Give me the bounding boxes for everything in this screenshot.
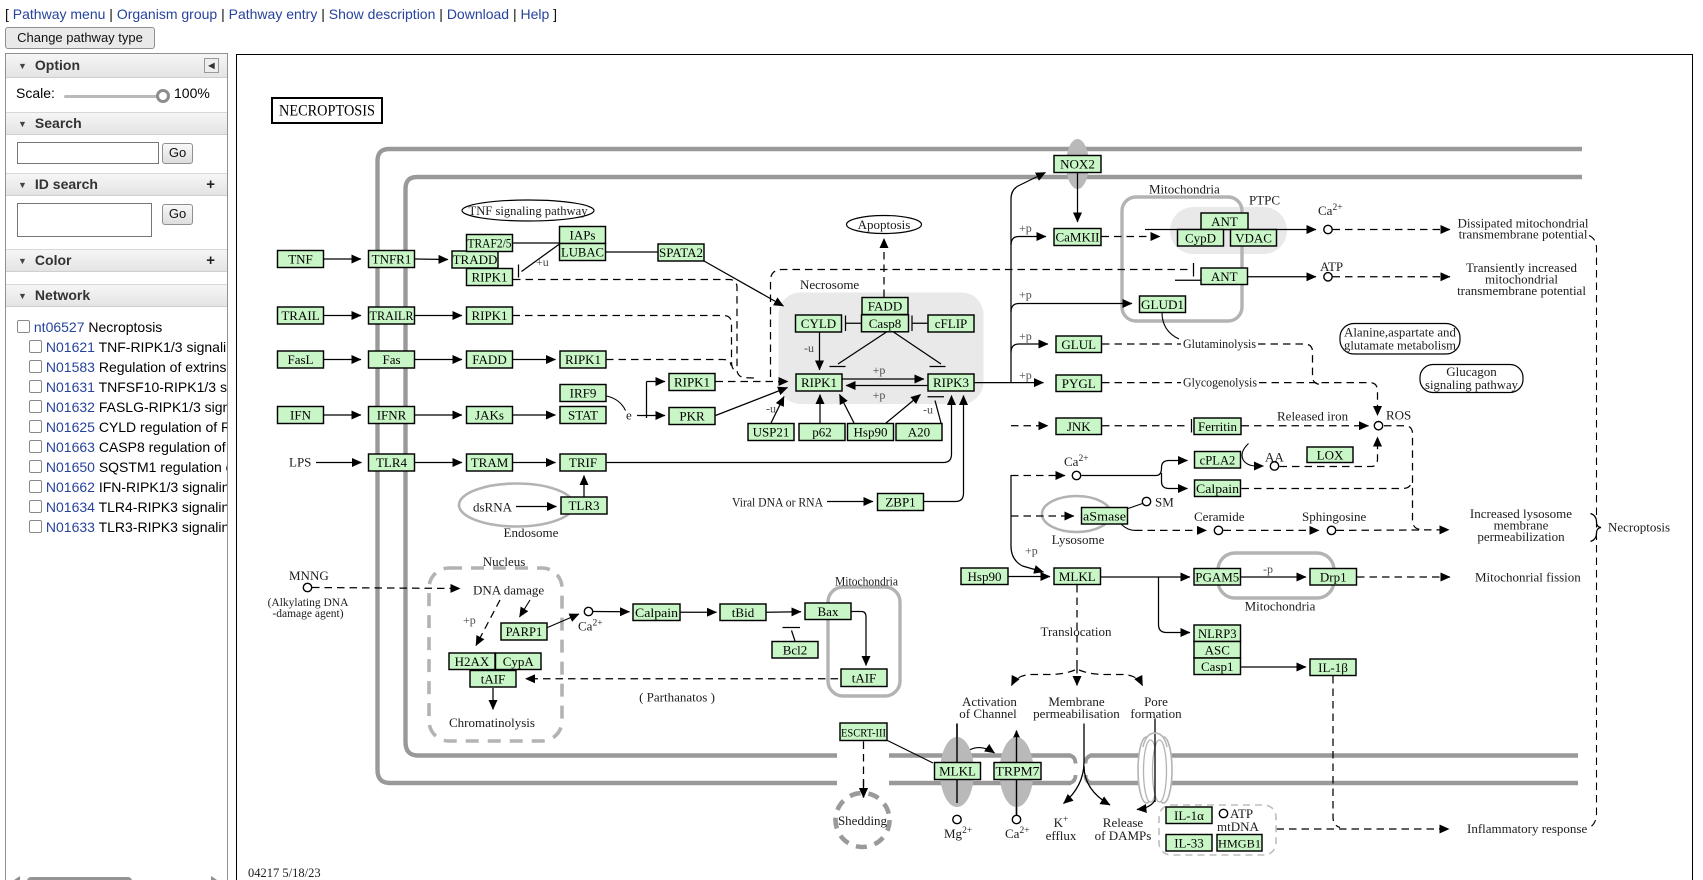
wire Bcl2 inhibit Bax — [783, 628, 801, 642]
wire MLKL to PGAM5 — [1101, 576, 1191, 578]
gene box TNF — [278, 251, 324, 268]
dashed to ceramide circle — [1135, 529, 1207, 531]
svg-text:Necrosome: Necrosome — [800, 277, 859, 292]
svg-text:transmembrane potential: transmembrane potential — [1459, 227, 1588, 242]
dashed ESCRT-III to shedding — [863, 742, 865, 798]
NOX2 membrane ellipse — [1066, 139, 1089, 189]
gene box PGAM5 — [1194, 569, 1241, 586]
svg-text:Bcl2: Bcl2 — [783, 642, 808, 657]
svg-text:Mitochondria: Mitochondria — [1149, 182, 1220, 197]
node Ca2+ nucleus — [584, 607, 592, 615]
membrane opening hooks — [1070, 756, 1091, 784]
wire TRAILR to RIPK1 — [415, 315, 462, 317]
svg-text:H2AX: H2AX — [455, 654, 490, 669]
membrane pore — [1138, 733, 1172, 803]
gene box NOX2 — [1054, 156, 1101, 173]
svg-text:tAIF: tAIF — [852, 670, 877, 685]
svg-text:Endosome: Endosome — [504, 525, 559, 540]
gene box RIPK1 c — [560, 351, 606, 368]
dashed trunk to JNK — [1011, 425, 1048, 427]
gene box GLUL — [1056, 336, 1102, 353]
svg-text:NOX2: NOX2 — [1060, 157, 1095, 172]
node ROS — [1374, 422, 1382, 430]
wire Viral DNA to ZBP1 — [827, 501, 873, 503]
svg-text:Casp8: Casp8 — [869, 316, 902, 331]
svg-text:mtDNA: mtDNA — [1217, 819, 1260, 834]
svg-text:Ca2+: Ca2+ — [578, 619, 603, 634]
svg-text:ROS: ROS — [1386, 408, 1411, 423]
svg-text:IFN: IFN — [290, 408, 312, 423]
gene box TRPM7 — [994, 763, 1041, 780]
DAMPs dashed box — [1159, 805, 1276, 855]
gene box H2AX — [449, 653, 495, 670]
shedding dashed circle — [836, 793, 890, 847]
wire pore formation stem — [1154, 719, 1156, 735]
dashed GLUL to glutaminolysis — [1102, 343, 1181, 345]
wire Casp1 to IL-1b — [1241, 666, 1306, 668]
svg-text:IL-33: IL-33 — [1174, 835, 1204, 850]
wire membrane permeabilisation K+ / DAMPs — [1064, 724, 1085, 804]
svg-text:TNF signaling pathway: TNF signaling pathway — [469, 203, 588, 218]
change pathway type button — [5, 27, 155, 49]
gene box aSmase — [1082, 508, 1128, 525]
svg-text:IL-1α: IL-1α — [1174, 808, 1204, 823]
wire Hsp90 to MLKL — [1009, 576, 1051, 578]
gene box CaMKII — [1054, 229, 1101, 246]
gene box USP21 — [748, 424, 794, 441]
node SM — [1142, 497, 1150, 505]
svg-text:TNF: TNF — [288, 252, 313, 267]
svg-text:JAKs: JAKs — [475, 408, 504, 423]
wire p62 to RIPK1 — [819, 395, 821, 424]
wire tBid to Bax — [767, 611, 802, 613]
svg-text:Glutaminolysis: Glutaminolysis — [1183, 336, 1256, 351]
svg-text:PGAM5: PGAM5 — [1195, 570, 1239, 584]
svg-text:A20: A20 — [908, 425, 930, 440]
svg-text:TRAM: TRAM — [471, 455, 509, 470]
gene box TRAIL — [278, 307, 324, 324]
wire e to PKR — [647, 415, 666, 417]
dashed RIPK1 row1 to necrosome — [513, 280, 757, 379]
T-bar Casp8 cFLIP — [912, 316, 928, 332]
wire LPS to TLR4 — [316, 462, 362, 464]
svg-text:Inflammatory response: Inflammatory response — [1467, 821, 1587, 836]
gene box PARP1 — [501, 623, 547, 640]
gene box Fas — [369, 351, 415, 368]
svg-text:Ca2+: Ca2+ — [1064, 454, 1089, 469]
svg-text:IFNR: IFNR — [377, 408, 407, 423]
gene box TRAILR — [369, 307, 415, 324]
gene box CYLD — [796, 315, 842, 332]
svg-text:-u: -u — [923, 403, 933, 417]
wire TNF to TNFR1 — [324, 258, 361, 260]
gene box tBid — [720, 604, 766, 621]
svg-text:glutamate metabolism: glutamate metabolism — [1344, 338, 1456, 353]
svg-text:IRF9: IRF9 — [570, 386, 597, 401]
svg-text:of DAMPs: of DAMPs — [1095, 828, 1152, 843]
svg-text:04217 5/18/23: 04217 5/18/23 — [248, 866, 321, 880]
gene box FADD a — [467, 351, 513, 368]
dashed MLKL translocation — [1076, 585, 1078, 666]
gene box CypD — [1178, 230, 1224, 247]
dashed RIPK1 row4 to necrosome RIPK1 — [716, 381, 789, 383]
dashed RIPK1 row3 merge — [606, 360, 731, 366]
gene box ANT 1 — [1201, 213, 1248, 230]
svg-text:HMGB1: HMGB1 — [1218, 836, 1261, 850]
wire USP21 to RIPK1 — [771, 397, 784, 424]
dashed ceramide to sphingosine — [1224, 529, 1320, 531]
svg-text:RIPK1: RIPK1 — [674, 375, 710, 390]
shedding arrow tip redraw — [863, 780, 865, 798]
svg-text:signaling pathway: signaling pathway — [1425, 377, 1518, 392]
wire trunk arrow PYGL — [1042, 382, 1045, 384]
wire TLR3 to TRIF — [583, 476, 585, 497]
wire LUBAC to SPATA2 — [606, 251, 658, 253]
wire IFNR to JAKs — [415, 414, 462, 416]
svg-text:FasL: FasL — [288, 352, 314, 367]
svg-text:USP21: USP21 — [753, 425, 790, 440]
gene box LUBAC — [560, 244, 606, 261]
gene box VDAC — [1231, 230, 1277, 247]
wire aSmase to SM — [1128, 504, 1143, 509]
mitochondria 1 outline (top right) — [1122, 197, 1242, 321]
gene box NLRP3 — [1194, 625, 1241, 642]
wire TRAM to TRIF — [513, 462, 556, 464]
wire Ca circle fork — [1082, 461, 1188, 476]
T-bar JNK Ferritin — [1191, 419, 1193, 433]
gene box TRAM — [467, 454, 513, 471]
svg-text:MLKL: MLKL — [1059, 569, 1096, 584]
dashed DNA damage to H2AX +p — [476, 600, 500, 646]
svg-text:RIPK3: RIPK3 — [933, 375, 969, 390]
svg-text:Mitochondria: Mitochondria — [835, 574, 898, 589]
gene box IFN — [278, 407, 324, 424]
svg-text:Glycogenolysis: Glycogenolysis — [1183, 375, 1257, 390]
svg-text:permeabilization: permeabilization — [1477, 529, 1565, 544]
gene box p62 — [799, 424, 845, 441]
svg-text:+p: +p — [1019, 368, 1032, 382]
wire trunk to MLKL — [1011, 475, 1044, 572]
node Ceramide — [1214, 526, 1222, 534]
gene box LOX — [1307, 447, 1353, 463]
gene box JNK — [1056, 418, 1102, 435]
wire aSmase corner ceramide — [1122, 525, 1136, 531]
svg-text:STAT: STAT — [568, 408, 598, 423]
wire A20 inhibit RIPK3 — [928, 397, 945, 423]
svg-text:aSmase: aSmase — [1083, 509, 1126, 523]
svg-text:Ca2+: Ca2+ — [1005, 826, 1030, 841]
wire TLR4 to TRAM — [415, 462, 462, 464]
wire MLKL to TRPM7 curve — [962, 748, 995, 756]
gene box Calpain 1 — [633, 604, 680, 621]
wire Calpain to tBid — [681, 611, 717, 613]
map title NECROPTOSIS — [272, 98, 382, 123]
T-bar +u RIPK1 — [518, 265, 520, 278]
gene box CypA — [496, 653, 542, 670]
svg-text:NLRP3: NLRP3 — [1198, 627, 1237, 641]
svg-text:Ceramide: Ceramide — [1194, 509, 1245, 524]
wire Ca to Calpain — [593, 611, 630, 613]
dashed Calpain to vertical — [1242, 484, 1412, 489]
svg-text:RIPK1: RIPK1 — [801, 375, 837, 390]
svg-text:RIPK1: RIPK1 — [471, 270, 507, 285]
svg-text:Ferritin: Ferritin — [1198, 419, 1237, 434]
svg-text:+u: +u — [536, 255, 549, 269]
gene box PYGL — [1056, 375, 1102, 392]
gene box Bax — [805, 603, 851, 620]
top navigation links — [5, 6, 557, 22]
node AA — [1270, 462, 1278, 470]
gene box IL-33 — [1166, 835, 1212, 852]
gene box JAKs — [467, 407, 513, 424]
wire dsRNA to TLR3 — [516, 506, 557, 508]
gene box RIPK1 a — [467, 269, 513, 286]
node Ca2+ mito — [1324, 225, 1332, 233]
wire TRIF to RIPK3 — [607, 396, 952, 463]
wire trunk to GLUD1 — [1011, 304, 1132, 313]
svg-text:of Channel: of Channel — [959, 706, 1017, 721]
wire Hsp90 to RIPK1 — [840, 395, 855, 424]
svg-text:Mg2+: Mg2+ — [944, 826, 972, 841]
cell membrane inner line — [406, 177, 1583, 756]
svg-text:+p: +p — [1019, 288, 1032, 302]
svg-text:SM: SM — [1155, 495, 1174, 510]
gene box FADD b — [862, 298, 908, 315]
wire RIPK1 +p RIPK3 — [842, 378, 924, 380]
svg-text:-u: -u — [804, 341, 814, 355]
wire NOX2 to CaMKII — [1077, 173, 1079, 222]
wire IFN to IFNR — [324, 414, 361, 416]
re-draw channel verticals over ellipses — [957, 724, 1017, 816]
wire CYLD -u RIPK1 — [819, 332, 821, 370]
dashed Ferritin released iron to ROS — [1242, 425, 1369, 427]
dashed PYGL to glycogenolysis — [1102, 382, 1181, 384]
svg-text:ASC: ASC — [1205, 642, 1230, 657]
wire trunk to CaMKII — [1011, 237, 1046, 246]
svg-text:AA: AA — [1265, 450, 1284, 465]
dashed outcome collector right — [1589, 236, 1597, 828]
gene box tAIF a — [470, 671, 516, 688]
wire cPLA2 to AA — [1242, 444, 1263, 467]
wire PGAM5 to Drp1 — [1241, 576, 1306, 578]
svg-text:Viral DNA or RNA: Viral DNA or RNA — [732, 495, 824, 510]
lysosome ellipse — [1042, 496, 1111, 532]
gene box Casp1 — [1194, 658, 1241, 675]
gene box RIPK3 — [928, 374, 974, 391]
wire e to RIPK1 — [647, 381, 666, 383]
gene box PKR — [669, 408, 715, 425]
TRPM7 channel ellipse — [1000, 737, 1034, 807]
wire TNFR1 to TRADD — [415, 258, 448, 261]
gene box MLKL a — [1054, 568, 1101, 585]
dashed RIPK1 row2 merge — [513, 316, 738, 372]
gene box IL-1b — [1310, 659, 1356, 676]
wire Bax to tAIF — [852, 612, 867, 666]
dashed Ca2+ to dissipated — [1333, 229, 1451, 231]
svg-text:-damage agent): -damage agent) — [272, 608, 343, 620]
svg-text:Fas: Fas — [382, 352, 400, 367]
gene box Drp1 — [1310, 569, 1357, 586]
svg-text:transmembrane potential: transmembrane potential — [1457, 283, 1586, 298]
svg-text:Translocation: Translocation — [1040, 624, 1112, 639]
gene box tAIF b — [841, 669, 887, 687]
svg-text:GLUD1: GLUD1 — [1141, 298, 1184, 312]
gene box TNFR1 — [369, 251, 415, 268]
dashed CaMKII to PTPC — [1102, 236, 1161, 238]
svg-text:TLR4: TLR4 — [376, 455, 408, 470]
wire tAIF to chromatinolysis — [492, 688, 494, 710]
svg-text:Calpain: Calpain — [1196, 482, 1240, 496]
svg-text:CypA: CypA — [503, 654, 535, 669]
node Ca2+ cytosol — [1072, 471, 1080, 479]
gene box cPLA2 — [1195, 452, 1241, 469]
wire JAKs to STAT — [513, 414, 556, 416]
dashed AA under LOX to ROS — [1280, 437, 1378, 467]
sidebar bottom horizontal scrollbar — [11, 876, 20, 880]
svg-text:ZBP1: ZBP1 — [885, 495, 915, 510]
dashed tAIF to tAIF — [526, 678, 839, 680]
svg-text:LOX: LOX — [1317, 447, 1344, 462]
svg-text:+p: +p — [1019, 329, 1032, 343]
endosome ellipse — [459, 484, 574, 527]
gene box ASC — [1194, 642, 1241, 659]
dashed translocation center arrow — [1076, 666, 1078, 686]
gene box ZBP1 — [878, 494, 924, 511]
gene box Hsp90 b — [961, 568, 1008, 585]
svg-text:PKR: PKR — [679, 409, 705, 424]
svg-text:ANT: ANT — [1211, 269, 1238, 284]
gene box MLKL b — [935, 763, 981, 780]
svg-text:TLR3: TLR3 — [568, 498, 599, 513]
gene box Ferritin — [1194, 418, 1241, 435]
svg-text:LPS: LPS — [289, 455, 311, 470]
svg-text:CYLD: CYLD — [801, 316, 836, 331]
T-bar necrosome to ANT — [1193, 263, 1195, 277]
wire trunk to GLUL — [1011, 344, 1048, 353]
svg-text:tAIF: tAIF — [481, 671, 506, 686]
wire SPATA2 to necrosome CYLD — [704, 261, 784, 306]
gene box RIPK1 b — [467, 307, 513, 324]
dashed ATP to transiently — [1333, 276, 1451, 278]
svg-text:+p: +p — [1019, 221, 1032, 235]
svg-text:permeabilisation: permeabilisation — [1033, 706, 1120, 721]
gene box ESCRT-III — [840, 723, 887, 741]
gene box GLUD1 — [1140, 296, 1186, 313]
PTPC gray blob — [1170, 207, 1287, 254]
gene box HMGB1 — [1217, 835, 1262, 852]
glucagon signaling pathway link — [1420, 364, 1523, 393]
svg-text:+p: +p — [873, 388, 886, 402]
gene box SPATA2 — [658, 244, 704, 261]
svg-text:PARP1: PARP1 — [506, 625, 543, 639]
dashed JNK to Ferritin — [1102, 425, 1189, 427]
gene box Calpain 2 — [1195, 480, 1241, 497]
wire Hsp90 to RIPK3 — [886, 395, 921, 424]
svg-text:ANT: ANT — [1211, 214, 1238, 229]
svg-text:Calpain: Calpain — [635, 606, 679, 620]
svg-text:NECROPTOSIS: NECROPTOSIS — [279, 103, 375, 120]
svg-text:dsRNA: dsRNA — [473, 500, 513, 515]
wire e riser — [637, 382, 647, 419]
gene box ANT 2 — [1201, 268, 1248, 285]
gene box TRIF — [560, 454, 606, 471]
wire Ca2+ up through TRPM7 — [1016, 731, 1018, 816]
wire into ANT2 — [1175, 279, 1201, 281]
svg-text:PTPC: PTPC — [1249, 193, 1280, 208]
gene box RIPK1 d — [669, 374, 715, 391]
svg-text:CypD: CypD — [1185, 230, 1216, 245]
svg-text:IAPs: IAPs — [569, 228, 595, 243]
gene box TLR3 — [561, 497, 607, 514]
svg-text:Lysosome: Lysosome — [1052, 532, 1105, 547]
gene box STAT — [560, 407, 606, 424]
dashed glutaminolysis corner — [1258, 344, 1321, 385]
wire MLKL branch to NLRP3 — [1159, 577, 1191, 633]
svg-text:p62: p62 — [812, 425, 832, 440]
gene box IAPs — [560, 227, 606, 244]
svg-text:Bax: Bax — [818, 604, 839, 619]
wire Ca circle fork Calpain — [1162, 473, 1188, 489]
wire Fas to FADD — [415, 359, 462, 361]
svg-text:DNA damage: DNA damage — [473, 583, 544, 598]
wire Casp8 inhibit RIPK3 — [894, 332, 946, 367]
wire TRAIL to TRAILR — [324, 315, 361, 317]
dashed trunk to aSmase — [1011, 515, 1074, 517]
alanine aspartate glutamate metabolism link — [1340, 324, 1460, 355]
node MNNG — [303, 583, 311, 591]
svg-text:GLUL: GLUL — [1061, 337, 1096, 352]
TNF signaling pathway link — [462, 200, 594, 221]
svg-text:( Parthanatos ): ( Parthanatos ) — [639, 690, 715, 705]
svg-text:JNK: JNK — [1067, 419, 1091, 434]
svg-text:FADD: FADD — [868, 299, 902, 314]
svg-text:-p: -p — [1263, 562, 1273, 576]
svg-text:Mitochonrial fission: Mitochonrial fission — [1475, 570, 1581, 585]
dashed Drp1 to fission — [1357, 576, 1450, 578]
svg-text:ESCRT-III: ESCRT-III — [841, 725, 886, 739]
dashed trunk to Ca2+ — [1011, 475, 1065, 477]
dashed translocation right — [1079, 670, 1143, 686]
gene box IRF9 — [560, 385, 606, 402]
svg-text:FADD: FADD — [472, 352, 506, 367]
wire TRAF2/5 to IAPs — [513, 242, 559, 244]
svg-text:-u: -u — [766, 402, 776, 416]
gene box Bcl2 — [772, 642, 818, 659]
svg-text:TRIF: TRIF — [569, 455, 597, 470]
svg-text:PYGL: PYGL — [1062, 376, 1096, 391]
svg-text:TRPM7: TRPM7 — [996, 765, 1040, 779]
svg-text:MNNG: MNNG — [289, 568, 329, 583]
gene box Casp8 — [862, 315, 909, 332]
svg-text:RIPK1: RIPK1 — [471, 308, 507, 323]
svg-text:formation: formation — [1130, 706, 1182, 721]
svg-text:TNFR1: TNFR1 — [372, 252, 412, 267]
wire activation of channel through MLKL — [956, 724, 958, 804]
svg-text:TRAF2/5: TRAF2/5 — [468, 237, 512, 251]
gene box Hsp90 a — [848, 424, 894, 441]
necrosome gray blob — [779, 293, 984, 405]
svg-text:Hsp90: Hsp90 — [968, 569, 1002, 584]
wire GLUD1 down to glutaminolysis — [1162, 313, 1179, 340]
gene box RIPK1 e — [796, 374, 842, 391]
svg-text:SPATA2: SPATA2 — [659, 246, 703, 260]
gene box IFNR — [369, 407, 415, 424]
gene box A20 — [896, 424, 942, 441]
svg-text:efflux: efflux — [1046, 828, 1077, 843]
cell membrane outer line — [378, 149, 1583, 783]
node ATP mito — [1324, 273, 1332, 281]
T-bar CYLD Casp8 — [846, 316, 862, 332]
